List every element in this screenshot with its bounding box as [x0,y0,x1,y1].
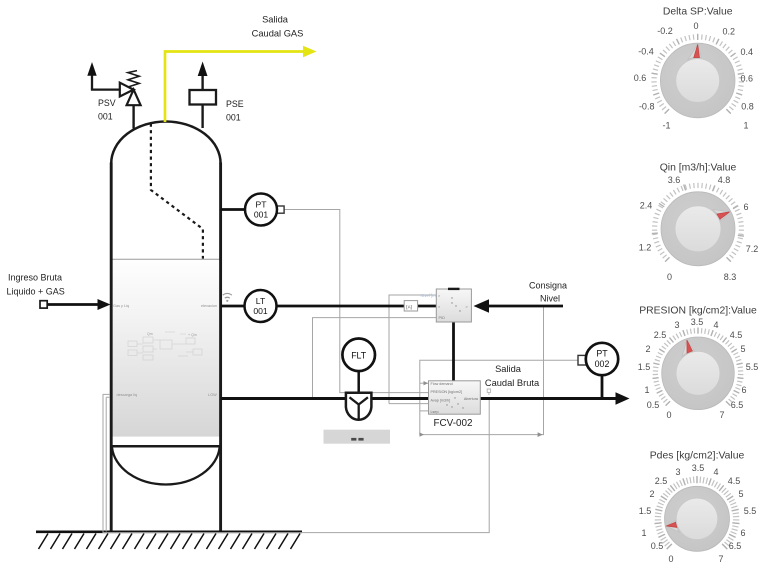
instrument PT002 [578,355,587,365]
svg-text:PRESION [kg/cm2]: PRESION [kg/cm2] [431,390,463,394]
svg-text:5: 5 [740,344,745,354]
svg-text:7: 7 [718,554,723,564]
vessel right wall [219,163,222,532]
A-block converter [404,301,417,311]
PSV vent arrow [91,76,120,90]
svg-text:-0.8: -0.8 [639,102,655,112]
PSE vent arrowhead [198,62,208,77]
svg-text:Nivel [m]: Nivel [m] [421,293,437,298]
svg-text:Abertura: Abertura [464,397,479,401]
svg-text:0: 0 [667,272,672,282]
svg-text:FCV-002: FCV-002 [434,418,473,429]
svg-text:Salida: Salida [495,364,522,374]
svg-text:Ingreso Bruta: Ingreso Bruta [8,273,62,283]
gray signal: to FCV input 3 [389,403,429,405]
label Salida Caudal GAS [252,15,304,39]
knob K4 Pdes [639,451,757,565]
svg-text:2.5: 2.5 [654,330,667,340]
yellow gas outlet line [165,52,306,123]
instrument LT001 [245,290,277,322]
svg-text:7.2: 7.2 [746,244,759,254]
svg-text:Caudal GAS: Caudal GAS [252,29,304,39]
gray signal: PT001 to down [284,210,429,393]
svg-text:[A]: [A] [406,304,412,309]
svg-text:4.5: 4.5 [728,476,741,486]
svg-text:LOW: LOW [208,393,217,397]
svg-text:3.6: 3.6 [668,175,681,185]
label Ingreso Bruta Liquido + GAS [7,273,65,297]
svg-text:3.5: 3.5 [692,463,705,473]
svg-text:4: 4 [713,467,718,477]
PT001 tap line [221,208,245,211]
svg-text:PRESION [kg/cm2]:Value: PRESION [kg/cm2]:Value [639,306,757,317]
svg-text:1: 1 [743,121,748,131]
svg-text:Caudal Bruta: Caudal Bruta [485,378,540,388]
ground line [36,530,302,533]
PSV spring [128,71,139,90]
svg-text:PID: PID [439,316,446,320]
svg-text:descarga liq: descarga liq [117,393,137,397]
inlet source square [40,301,47,308]
label Salida Caudal Bruta [485,364,540,388]
svg-text:4.5: 4.5 [730,330,743,340]
wifi icon on LT tap [223,293,232,298]
svg-text:4: 4 [713,320,718,330]
gray signal: PT002 feedback to FCV [420,307,578,435]
svg-text:Delta SP:Value: Delta SP:Value [663,7,733,18]
control valve body (Y) [346,393,372,420]
PSE lines [201,105,203,129]
svg-text:0: 0 [668,554,673,564]
svg-text:1.5: 1.5 [639,506,652,516]
svg-text:5.5: 5.5 [746,362,759,372]
status bar with dashes [324,430,391,444]
svg-text:4.8: 4.8 [718,175,731,185]
svg-text:0.5: 0.5 [647,400,660,410]
PSV inlet line [132,105,134,128]
vessel bottom separator line [110,445,222,448]
svg-text:3: 3 [674,320,679,330]
svg-text:1: 1 [644,385,649,395]
svg-text:FLT: FLT [351,351,367,361]
label PSV 001 [98,98,116,122]
svg-text:-1: -1 [662,121,670,131]
svg-text:Qin [m3/h]:Value: Qin [m3/h]:Value [660,163,737,174]
svg-text:6.5: 6.5 [729,541,742,551]
svg-text:Qm: Qm [147,332,153,336]
svg-text:Consigna: Consigna [529,281,567,291]
gray signal: A-block bypass to controller [389,295,436,404]
svg-text:7: 7 [719,410,724,420]
svg-text:Lsep: Lsep [431,410,439,414]
PSE rupture disc PSE-001 [190,90,217,105]
svg-text:elevacion: elevacion [201,304,217,308]
svg-text:2: 2 [649,489,654,499]
svg-text:PT: PT [596,349,608,359]
svg-text:Salida: Salida [262,15,289,25]
vessel dished bottom [112,448,220,485]
gray signal: pipe tap down to bottom feedback [103,394,489,532]
svg-text:001: 001 [226,113,241,123]
FLT stem [357,371,360,393]
svg-text:5: 5 [738,489,743,499]
LT main signal line [221,305,436,308]
vessel inner mini-sketch [128,332,202,360]
tiny arrows on gray wires [420,381,543,437]
svg-text:Pdes [kg/cm2]:Value: Pdes [kg/cm2]:Value [650,451,745,462]
svg-text:3.5: 3.5 [691,317,704,327]
svg-text:5.5: 5.5 [744,506,757,516]
vessel dome [111,122,220,164]
svg-text:6: 6 [741,385,746,395]
svg-text:002: 002 [595,359,610,369]
svg-text:0.5: 0.5 [651,541,664,551]
PSV valve PSV-001 [120,83,141,106]
svg-text:+ Qin: + Qin [188,333,197,337]
svg-text:0.8: 0.8 [741,102,754,112]
svg-text:0: 0 [666,410,671,420]
label PSE 001 [226,99,244,123]
Consigna Nivel setpoint line [487,305,563,308]
svg-text:6.5: 6.5 [731,400,744,410]
Consigna arrowhead [474,299,490,312]
svg-text:6: 6 [740,528,745,538]
svg-text:-0.4: -0.4 [638,47,654,57]
svg-text:Avap [m3/h]: Avap [m3/h] [431,398,451,402]
svg-text:0: 0 [693,21,698,31]
svg-text:6: 6 [743,202,748,212]
gray signal: LT branch to controller lower input [313,318,437,398]
svg-text:Nivel: Nivel [540,294,560,304]
svg-text:Liquido + GAS: Liquido + GAS [7,287,65,297]
knob K2 Qin [639,163,759,283]
svg-text:PSE: PSE [226,99,244,109]
FCV-002 block [429,381,481,414]
ground hatching [39,534,301,550]
vessel liquid fill [112,260,220,437]
svg-text:0.4: 0.4 [740,47,753,57]
gray signal jog to FCV flow demand port [420,382,429,384]
controller block LC [436,289,471,322]
valve Y spokes [350,397,368,419]
svg-text:2.5: 2.5 [655,476,668,486]
pipe arrowhead [616,392,630,404]
PT002 tap line [601,375,604,398]
instrument PT001 [277,206,284,213]
svg-text:LT: LT [256,296,266,306]
inlet arrowhead [98,299,111,310]
inlet feed line [48,303,101,306]
vessel left wall [110,163,113,532]
svg-text:8.3: 8.3 [724,272,737,282]
svg-text:1.2: 1.2 [639,243,652,253]
knob K1 Delta SP [634,7,754,131]
svg-text:0.6: 0.6 [634,73,647,83]
svg-text:2: 2 [645,344,650,354]
main liquid outlet pipe [221,397,617,400]
svg-text:001: 001 [98,112,113,122]
svg-text:Gas y Liq: Gas y Liq [113,304,129,308]
yellow arrowhead [303,46,317,57]
svg-text:001: 001 [254,210,269,220]
signal tag near pipe [487,389,490,395]
svg-text:3: 3 [675,467,680,477]
label Consigna Nivel [529,281,567,304]
svg-text:PSV: PSV [98,98,116,108]
controller output line [452,322,455,381]
vessel level line [111,258,220,260]
svg-text:PT: PT [256,200,268,210]
instrument FLT [342,339,375,372]
svg-text:0.6: 0.6 [740,74,753,84]
knob K3 PRESION [638,306,759,421]
gray signal jog to FCV Lsep port [420,410,429,412]
svg-text:1.5: 1.5 [638,362,651,372]
svg-text:0.2: 0.2 [723,26,736,36]
svg-text:1: 1 [641,528,646,538]
svg-text:2.4: 2.4 [640,201,653,211]
svg-text:-0.2: -0.2 [657,26,673,36]
gray signal: second feedback line [106,397,110,531]
svg-text:001: 001 [253,306,268,316]
vessel internal dashed gas path [151,124,203,259]
svg-text:Flow demand: Flow demand [431,382,453,386]
